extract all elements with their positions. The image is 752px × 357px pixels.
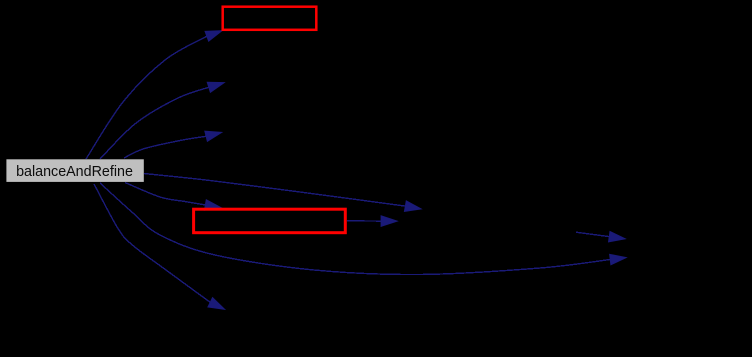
- edge E8 red2->n4: [347, 220, 381, 222]
- arrowhead E2 balanceAndRefine->n2: [207, 82, 224, 92]
- arrowhead E8 red2->n4: [381, 216, 398, 227]
- edge E5 balanceAndRefine->n4: [144, 174, 405, 207]
- arrowhead E7 balanceAndRefine->n5: [208, 297, 225, 309]
- edge E1 balanceAndRefine->red1: [86, 36, 207, 159]
- edge E9 n4->n6: [576, 232, 609, 236]
- arrowhead E6 balanceAndRefine->n6: [610, 254, 627, 265]
- edge E4 balanceAndRefine->red2: [125, 183, 205, 205]
- arrowhead E4 balanceAndRefine->red2: [204, 200, 221, 211]
- arrowhead E5 balanceAndRefine->n4: [404, 201, 421, 212]
- arrowhead E3 balanceAndRefine->n3: [205, 131, 222, 141]
- arrowhead E9 n4->n6: [608, 231, 625, 242]
- node balanceAndRefine (grey current-function box): [6, 159, 143, 182]
- node red box 2 (middle, truncated callee): [194, 209, 346, 233]
- svg-text:balanceAndRefine: balanceAndRefine: [16, 164, 133, 180]
- edge E3 balanceAndRefine->n3: [124, 136, 206, 158]
- edge E2 balanceAndRefine->n2: [100, 87, 209, 159]
- node red box 1 (top, truncated callee): [223, 7, 317, 30]
- edge E6 balanceAndRefine->n6: [100, 183, 610, 275]
- edge E7 balanceAndRefine->n5: [94, 184, 210, 302]
- arrowhead E1 balanceAndRefine->red1: [205, 31, 222, 42]
